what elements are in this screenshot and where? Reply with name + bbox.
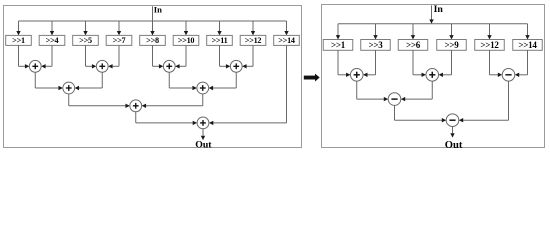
wire N2 to subtractor M1 (right) — [401, 81, 432, 101]
wire shifter6 to subtractor N3 (right) — [515, 50, 528, 77]
subtractor N3 (right) — [502, 69, 515, 82]
wire shifter4 to adder A2 (left) — [108, 45, 119, 68]
adder N2 (right) — [426, 69, 439, 82]
svg-text:>>10: >>10 — [178, 36, 195, 45]
wire shifter3 to adder N2 (right) — [413, 50, 426, 77]
wire shifter1 to adder N1 (right) — [338, 50, 350, 77]
node In (right) — [434, 4, 444, 15]
shifter >>3 (right) — [361, 40, 391, 51]
wire bus to shifter >>1 (right) — [336, 24, 340, 40]
wire shifter8 to adder A4 (left) — [242, 45, 253, 68]
wire bus to shifter >>11 (left) — [217, 21, 221, 35]
wire shifter2 to adder N1 (right) — [363, 50, 375, 77]
svg-text:>>14: >>14 — [278, 36, 295, 45]
wire shifter3 to adder A2 (left) — [86, 45, 97, 68]
svg-text:>>14: >>14 — [518, 40, 537, 50]
wire shifter5 to adder A3 (left) — [153, 45, 164, 68]
svg-text:>>7: >>7 — [113, 36, 126, 45]
shifter >>6 (right) — [398, 40, 428, 51]
transform arrow — [304, 74, 320, 82]
svg-text:>>12: >>12 — [245, 36, 262, 45]
adder A2 (left) — [96, 60, 108, 72]
svg-text:In: In — [434, 4, 444, 15]
wire A2 to adder B1 (left) — [75, 72, 103, 90]
shifter >>8 (left) — [140, 35, 166, 45]
svg-text:>>11: >>11 — [211, 36, 227, 45]
wire input bus (right) — [338, 23, 528, 25]
wire shifter4 to adder N2 (right) — [439, 50, 452, 77]
shifter >>1 (right) — [323, 40, 353, 51]
wire A3 to adder B2 (left) — [169, 72, 197, 90]
wire shifter2 to adder A1 (left) — [41, 45, 52, 68]
svg-text:>>9: >>9 — [444, 40, 459, 50]
shifter >>10 (left) — [173, 35, 199, 45]
wire shifter7 to adder A4 (left) — [220, 45, 231, 68]
shifter >>12 (left) — [240, 35, 266, 45]
svg-text:Out: Out — [195, 140, 212, 151]
shifter >>4 (left) — [39, 35, 65, 45]
adder D1 (left) — [197, 117, 209, 129]
svg-text:>>12: >>12 — [480, 40, 499, 50]
wire shifter9 to adder D1 (left) — [209, 45, 287, 125]
shifter >>14 (right) — [513, 40, 543, 51]
shifter >>12 (right) — [475, 40, 505, 51]
adder N1 (right) — [350, 69, 363, 82]
svg-text:>>8: >>8 — [146, 36, 159, 45]
wire bus to shifter >>8 (left) — [150, 21, 154, 35]
svg-text:>>1: >>1 — [12, 36, 25, 45]
wire bus to shifter >>9 (right) — [449, 24, 453, 40]
subtractor M2 (right) — [446, 114, 459, 127]
svg-text:In: In — [154, 4, 162, 14]
wire bus to shifter >>4 (left) — [50, 21, 54, 35]
right diagram frame — [322, 5, 545, 148]
wire D1 to Out (left) — [201, 129, 205, 140]
wire C1 to adder D1 (left) — [136, 112, 197, 125]
wire B2 to adder C1 (left) — [142, 94, 203, 108]
wire A4 to adder B2 (left) — [209, 72, 237, 90]
adder C1 (left) — [130, 100, 142, 112]
svg-text:>>5: >>5 — [79, 36, 92, 45]
shifter >>11 (left) — [207, 35, 233, 45]
svg-text:Out: Out — [445, 140, 463, 151]
wire bus to shifter >>5 (left) — [83, 21, 87, 35]
wire N1 to subtractor M1 (right) — [357, 81, 388, 101]
shifter >>7 (left) — [106, 35, 132, 45]
shifter >>1 (left) — [6, 35, 32, 45]
adder A3 (left) — [163, 60, 175, 72]
wire A1 to adder B1 (left) — [35, 72, 63, 90]
wire bus to shifter >>12 (right) — [487, 24, 491, 40]
wire bus to shifter >>10 (left) — [184, 21, 188, 35]
wire bus to shifter >>14 (right) — [525, 24, 529, 40]
wire bus to shifter >>3 (right) — [373, 24, 377, 40]
wire In drop (left) — [152, 6, 154, 21]
adder A1 (left) — [29, 60, 41, 72]
wire bus to shifter >>7 (left) — [117, 21, 121, 35]
subtractor M1 (right) — [388, 93, 401, 106]
adder B2 (left) — [197, 82, 209, 94]
wire N3 to subtractor M2 (right) — [459, 81, 509, 122]
svg-text:>>1: >>1 — [331, 40, 346, 50]
wire In drop (right) — [429, 5, 433, 23]
wire M1 to subtractor M2 (right) — [395, 105, 447, 122]
shifter >>9 (right) — [437, 40, 467, 51]
wire shifter1 to adder A1 (left) — [19, 45, 30, 68]
wire bus to shifter >>14 (left) — [284, 21, 288, 35]
wire bus to shifter >>12 (left) — [251, 21, 255, 35]
svg-text:>>6: >>6 — [406, 40, 421, 50]
svg-text:>>4: >>4 — [46, 36, 59, 45]
shifter >>14 (left) — [274, 35, 300, 45]
wire input bus (left) — [19, 20, 287, 22]
wire bus to shifter >>1 (left) — [16, 21, 20, 35]
wire M2 to Out (right) — [450, 127, 454, 138]
shifter >>5 (left) — [73, 35, 99, 45]
wire shifter5 to subtractor N3 (right) — [490, 50, 503, 77]
wire bus to shifter >>6 (right) — [411, 24, 415, 40]
node Out (right) — [445, 140, 463, 151]
node In (left) — [154, 4, 162, 14]
left diagram frame — [4, 6, 302, 148]
wire shifter6 to adder A3 (left) — [175, 45, 186, 68]
node Out (left) — [195, 140, 212, 151]
svg-text:>>3: >>3 — [368, 40, 383, 50]
adder B1 (left) — [63, 82, 75, 94]
adder A4 (left) — [230, 60, 242, 72]
wire B1 to adder C1 (left) — [69, 94, 130, 108]
